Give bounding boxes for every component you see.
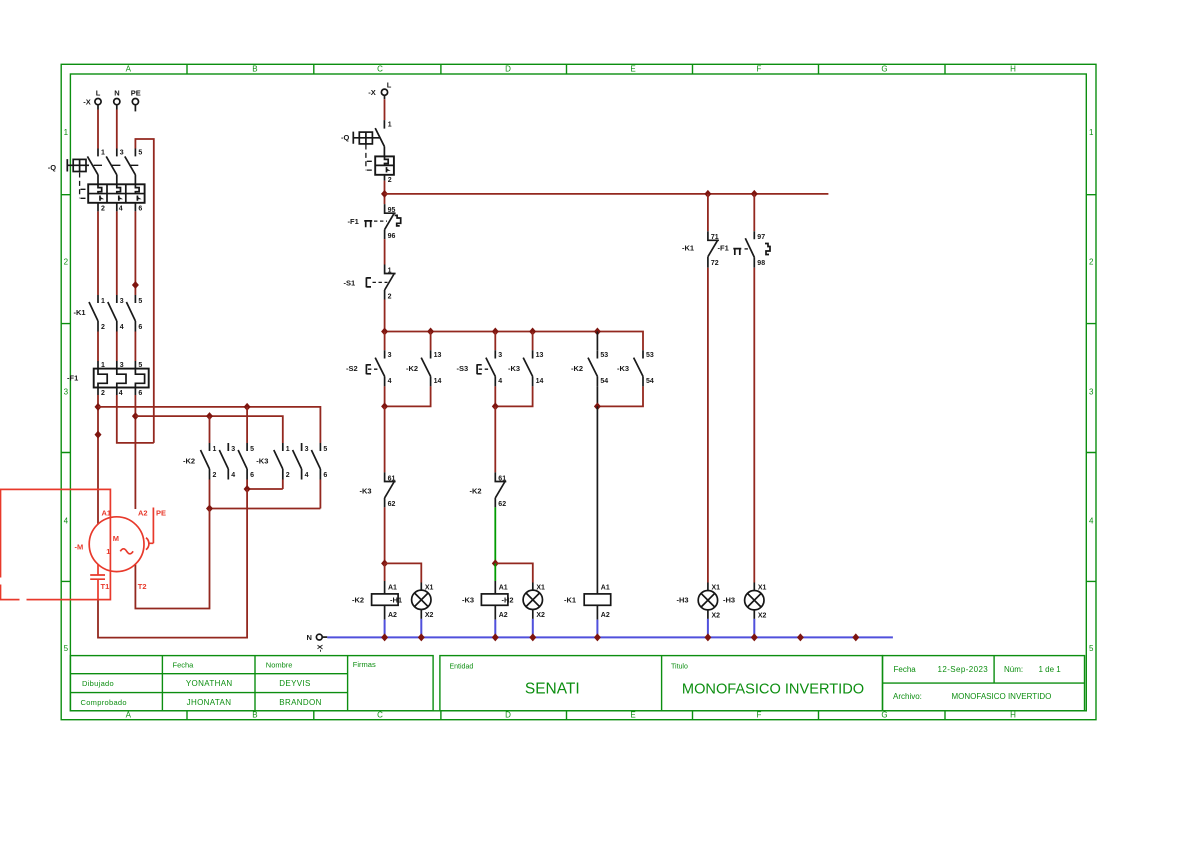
- node dot coil K2: [381, 559, 388, 567]
- svg-text:-S3: -S3: [457, 364, 469, 373]
- svg-text:97: 97: [757, 234, 765, 241]
- wire K3-62 to coil node: [384, 507, 386, 563]
- contact -K1 71-72: [682, 231, 719, 268]
- svg-text:PE: PE: [156, 508, 166, 517]
- svg-text:54: 54: [646, 378, 654, 385]
- svg-text:4: 4: [1089, 517, 1094, 526]
- svg-text:-K2: -K2: [571, 364, 583, 373]
- wire T2 run: [135, 509, 209, 609]
- breaker -Q pole 5: [125, 149, 143, 185]
- svg-text:53: 53: [646, 352, 654, 359]
- svg-text:98: 98: [757, 260, 765, 267]
- svg-text:2: 2: [1089, 258, 1094, 267]
- svg-text:PE: PE: [131, 88, 141, 97]
- svg-text:N: N: [307, 633, 312, 642]
- pushbutton -S3 3-4: [457, 350, 503, 386]
- svg-text:1 de 1: 1 de 1: [1039, 665, 1062, 674]
- motor terminal labels: [101, 508, 148, 591]
- svg-text:1: 1: [101, 150, 105, 157]
- svg-text:1: 1: [286, 446, 290, 453]
- svg-text:-K3: -K3: [462, 595, 474, 604]
- bus node dots: [381, 633, 388, 641]
- node dot below -Q: [381, 190, 388, 198]
- svg-text:5: 5: [1089, 644, 1094, 653]
- svg-text:-K2: -K2: [406, 364, 418, 373]
- svg-text:-K1: -K1: [682, 244, 694, 253]
- lamp -H3 a: [677, 585, 721, 638]
- motor -M: [75, 517, 145, 572]
- coil -K3: [462, 584, 508, 637]
- svg-text:1: 1: [101, 362, 105, 369]
- svg-text:G: G: [881, 711, 887, 720]
- svg-text:-H3: -H3: [723, 596, 735, 605]
- control rail top: [385, 193, 829, 195]
- node dot rail2 S3: [492, 328, 499, 336]
- svg-text:-K2: -K2: [183, 457, 195, 466]
- svg-text:D: D: [505, 711, 511, 720]
- svg-text:54: 54: [600, 378, 608, 385]
- wire join2 to K2 61: [494, 406, 496, 472]
- svg-text:2: 2: [101, 324, 105, 331]
- svg-text:MONOFASICO INVERTIDO: MONOFASICO INVERTIDO: [682, 681, 864, 697]
- svg-text:H: H: [1010, 65, 1016, 74]
- wires rail2 to branch contacts: [385, 332, 533, 351]
- svg-text:3: 3: [305, 446, 309, 453]
- svg-text:A2: A2: [499, 612, 508, 619]
- wire join1 to K3 61: [384, 406, 386, 472]
- control rail 2: [385, 332, 643, 351]
- contactor -K3 pole 1-2: [274, 443, 290, 480]
- svg-text:-Q: -Q: [341, 133, 349, 142]
- wire F1-98 to lamp H3b: [753, 268, 755, 583]
- svg-text:4: 4: [119, 390, 123, 397]
- svg-text:12-Sep-2023: 12-Sep-2023: [938, 665, 989, 674]
- svg-text:6: 6: [138, 205, 142, 212]
- svg-text:Fecha: Fecha: [173, 661, 195, 670]
- branch rail L to K2/K3 pole5: [98, 407, 320, 443]
- branch rail F1/6 to K2/K3 pole1: [135, 416, 282, 443]
- capacitor on T1: [90, 564, 105, 599]
- svg-text:-K2: -K2: [352, 595, 364, 604]
- wire -Q to rail: [384, 181, 386, 205]
- svg-text:6: 6: [323, 472, 327, 479]
- svg-text:-F1: -F1: [718, 244, 729, 253]
- contact -K3 61-62: [360, 472, 396, 508]
- svg-text:-S1: -S1: [344, 278, 356, 287]
- svg-text:4: 4: [64, 517, 69, 526]
- svg-text:C: C: [377, 65, 383, 74]
- svg-text:A2: A2: [388, 612, 397, 619]
- svg-text:A2: A2: [601, 612, 610, 619]
- svg-text:-X: -X: [83, 97, 91, 106]
- neutral bus N: [327, 636, 893, 638]
- node dot rail2 S2: [381, 328, 388, 336]
- svg-text:1: 1: [1089, 128, 1094, 137]
- svg-text:-X: -X: [368, 88, 376, 97]
- svg-text:L: L: [96, 88, 101, 97]
- contact -K2 61-62: [470, 472, 507, 508]
- svg-text:5: 5: [138, 362, 142, 369]
- wire join3 to coil K1 (black): [596, 406, 598, 594]
- wire K2-62 to coil node (green): [494, 507, 496, 563]
- wire to K2 pole1: [209, 416, 211, 443]
- svg-text:D: D: [505, 65, 511, 74]
- wire -F1/2 down to motor A1: [97, 395, 99, 524]
- svg-text:4: 4: [231, 472, 235, 479]
- wire K1-72 to lamp H3a: [707, 268, 709, 583]
- svg-text:3: 3: [120, 298, 124, 305]
- lamp -H3 b: [723, 585, 767, 638]
- svg-text:SENATI: SENATI: [525, 680, 580, 697]
- coil -K1: [564, 584, 611, 637]
- svg-text:72: 72: [711, 260, 719, 267]
- lamp -H2: [502, 584, 546, 637]
- svg-text:A1: A1: [388, 584, 397, 591]
- svg-text:A: A: [126, 65, 132, 74]
- wire branch to lamp H1: [385, 563, 422, 582]
- node dot rail K1-71: [704, 190, 711, 198]
- svg-text:M: M: [113, 534, 119, 543]
- contactor -K3 pole 5-6: [311, 443, 327, 480]
- svg-text:4: 4: [305, 472, 309, 479]
- node dot A1 lower: [95, 431, 102, 439]
- node dot rail2 K2-53: [594, 328, 601, 336]
- svg-text:T1: T1: [101, 582, 110, 591]
- join S3/K3-13: [495, 386, 532, 406]
- svg-text:-S2: -S2: [346, 364, 358, 373]
- svg-text:61: 61: [498, 475, 506, 482]
- svg-text:F: F: [757, 711, 762, 720]
- svg-text:T2: T2: [138, 582, 147, 591]
- svg-text:-K3: -K3: [360, 487, 372, 496]
- svg-text:62: 62: [498, 501, 506, 508]
- wire -F1/6 down to A2: [134, 395, 136, 509]
- contact -F1 97-98: [718, 231, 771, 268]
- svg-text:6: 6: [250, 472, 254, 479]
- svg-text:4: 4: [388, 378, 392, 385]
- svg-text:B: B: [252, 65, 257, 74]
- svg-text:A2: A2: [138, 508, 148, 517]
- wire terminal to -Q control: [384, 95, 386, 99]
- svg-text:3: 3: [120, 150, 124, 157]
- join K2-53/K3-53: [596, 386, 598, 406]
- svg-text:Entidad: Entidad: [450, 664, 474, 671]
- coil -K2: [352, 584, 398, 637]
- svg-text:Núm:: Núm:: [1004, 665, 1023, 674]
- svg-text:96: 96: [388, 233, 396, 240]
- motor enclosure box: [0, 489, 110, 601]
- svg-text:Archivo:: Archivo:: [893, 692, 922, 701]
- contactor -K1 pole 5-6: [126, 295, 142, 332]
- svg-text:2: 2: [101, 390, 105, 397]
- svg-text:2: 2: [388, 293, 392, 300]
- wire loop pole5 top to bypass line: [135, 139, 153, 443]
- svg-text:2: 2: [388, 177, 392, 184]
- svg-text:X2: X2: [712, 612, 721, 619]
- contactor -K2 pole 5-6: [238, 443, 254, 480]
- svg-text:-M: -M: [75, 542, 84, 551]
- svg-text:5: 5: [138, 150, 142, 157]
- svg-text:BRANDON: BRANDON: [279, 698, 321, 707]
- contact -K3 13-14: [508, 350, 543, 386]
- wire S1 to rail2: [384, 300, 386, 332]
- wire L terminal to -Q: [97, 105, 99, 110]
- svg-text:95: 95: [388, 207, 396, 214]
- svg-text:Firmas: Firmas: [353, 660, 376, 669]
- contactor -K2 pole 3-4: [219, 443, 235, 480]
- terminal -X N: [114, 88, 120, 104]
- breaker -Q control: [341, 120, 394, 184]
- svg-text:E: E: [630, 711, 635, 720]
- svg-text:-F1: -F1: [348, 217, 359, 226]
- node dot K2/2: [206, 505, 213, 513]
- svg-text:X2: X2: [425, 612, 434, 619]
- svg-text:Fecha: Fecha: [894, 665, 917, 674]
- svg-text:5: 5: [138, 298, 142, 305]
- svg-text:C: C: [377, 711, 383, 720]
- node dot join3: [594, 402, 601, 410]
- svg-text:-X: -X: [316, 645, 325, 653]
- svg-text:1: 1: [64, 128, 69, 137]
- svg-text:A1: A1: [499, 584, 508, 591]
- contact -K2 53-54: [571, 350, 608, 386]
- svg-text:JHONATAN: JHONATAN: [187, 698, 232, 707]
- terminal -X N (neutral): [307, 633, 328, 652]
- contactor -K1 pole 3-4: [108, 295, 124, 332]
- node dot rail F1-97: [751, 190, 758, 198]
- svg-text:Dibujado: Dibujado: [82, 679, 114, 688]
- svg-text:5: 5: [64, 644, 69, 653]
- svg-text:1: 1: [213, 446, 217, 453]
- svg-text:4: 4: [498, 378, 502, 385]
- svg-text:1: 1: [101, 298, 105, 305]
- svg-text:E: E: [630, 65, 635, 74]
- svg-text:-K2: -K2: [470, 487, 482, 496]
- svg-text:3: 3: [388, 352, 392, 359]
- node dot rail2 K2-13: [427, 328, 434, 336]
- wires -K1 to -F1: [98, 332, 135, 362]
- breaker -Q pole 1: [87, 149, 105, 185]
- svg-text:-Q: -Q: [48, 163, 56, 172]
- node dot pole5: [132, 281, 139, 289]
- svg-text:A1: A1: [102, 508, 112, 517]
- svg-text:-F1: -F1: [67, 374, 78, 383]
- svg-text:B: B: [252, 711, 257, 720]
- breaker -Q pole 3: [106, 149, 124, 185]
- svg-text:1: 1: [388, 121, 392, 128]
- svg-text:Comprobado: Comprobado: [81, 698, 127, 707]
- svg-text:A1: A1: [601, 584, 610, 591]
- wire F1 to S1: [384, 239, 386, 264]
- svg-text:6: 6: [138, 324, 142, 331]
- svg-text:G: G: [881, 65, 887, 74]
- svg-text:3: 3: [498, 352, 502, 359]
- wire rail to K1-71: [707, 194, 709, 231]
- svg-text:Nombre: Nombre: [266, 661, 293, 670]
- svg-text:14: 14: [434, 378, 442, 385]
- svg-text:71: 71: [711, 234, 719, 241]
- breaker -Q trip unit box: [88, 184, 144, 212]
- wire branch to lamp H2: [495, 563, 533, 582]
- svg-text:A: A: [126, 711, 132, 720]
- node dot rail2 K3-13: [529, 328, 536, 336]
- svg-text:-K3: -K3: [508, 364, 520, 373]
- svg-text:3: 3: [1089, 388, 1094, 397]
- wire T1 run: [98, 489, 247, 638]
- node dot coil K3: [492, 559, 499, 567]
- join S2/K2-13: [385, 386, 431, 406]
- svg-text:-K3: -K3: [256, 457, 268, 466]
- node dot A1 branch: [95, 403, 102, 411]
- svg-text:X1: X1: [536, 584, 545, 591]
- svg-text:61: 61: [388, 475, 396, 482]
- contactor -K3 pole 3-4: [293, 443, 309, 480]
- svg-text:N: N: [114, 88, 119, 97]
- svg-text:-K1: -K1: [564, 595, 576, 604]
- svg-text:X2: X2: [758, 612, 767, 619]
- wire K2/2 join K3/6: [210, 480, 321, 509]
- contactor -K1 pole 1-2: [89, 295, 105, 332]
- thermal relay -F1 power: [67, 362, 149, 397]
- pushbutton -S1: [344, 265, 396, 301]
- svg-text:5: 5: [323, 446, 327, 453]
- svg-text:3: 3: [231, 446, 235, 453]
- terminal -X L (control): [368, 81, 391, 97]
- svg-text:Titulo: Titulo: [671, 664, 688, 671]
- svg-text:5: 5: [250, 446, 254, 453]
- lamp -H1: [390, 584, 434, 637]
- svg-text:2: 2: [286, 472, 290, 479]
- svg-text:1: 1: [106, 547, 110, 556]
- svg-text:4: 4: [120, 324, 124, 331]
- svg-text:X1: X1: [758, 585, 767, 592]
- terminal -X L: [83, 88, 101, 106]
- TITLE BLOCK: [70, 656, 1084, 711]
- svg-text:4: 4: [119, 205, 123, 212]
- svg-text:DEYVIS: DEYVIS: [279, 679, 310, 688]
- svg-text:L: L: [387, 81, 392, 90]
- svg-text:62: 62: [388, 501, 396, 508]
- contact -F1 95-96: [348, 204, 401, 240]
- svg-text:3: 3: [120, 362, 124, 369]
- node dot join1: [381, 402, 388, 410]
- contact -K3 53-54: [617, 350, 654, 386]
- wire K2/6 join K3/2: [247, 480, 283, 490]
- svg-text:X1: X1: [712, 585, 721, 592]
- node dot K2 pole5: [244, 403, 251, 411]
- svg-text:-H1: -H1: [390, 595, 402, 604]
- wire -F1/4 down and right to bypass: [117, 395, 154, 443]
- contactor -K2 pole 1-2: [201, 443, 217, 480]
- svg-text:1: 1: [388, 267, 392, 274]
- pushbutton -S2 3-4: [346, 350, 392, 386]
- wire to coil K3 (green): [494, 563, 496, 581]
- motor PE lead: [146, 508, 166, 550]
- svg-text:-H3: -H3: [677, 596, 689, 605]
- wires -Q to -K1: [98, 211, 135, 295]
- svg-text:YONATHAN: YONATHAN: [186, 679, 233, 688]
- svg-text:H: H: [1010, 711, 1016, 720]
- svg-text:13: 13: [434, 352, 442, 359]
- node dot join2: [492, 402, 499, 410]
- svg-text:2: 2: [101, 205, 105, 212]
- terminal -X PE: [131, 88, 141, 111]
- wire N terminal to -Q: [116, 105, 118, 110]
- wire to K2 pole5: [246, 407, 248, 443]
- breaker -Q (3-pole motor breaker): [48, 159, 139, 198]
- node dot K2/6: [244, 485, 251, 493]
- svg-text:2: 2: [213, 472, 217, 479]
- svg-text:53: 53: [600, 352, 608, 359]
- contact -K2 13-14: [406, 350, 441, 386]
- svg-text:13: 13: [536, 352, 544, 359]
- svg-text:X2: X2: [536, 612, 545, 619]
- node dot F1/6 branch: [132, 412, 139, 420]
- svg-text:-K1: -K1: [74, 308, 86, 317]
- svg-text:2: 2: [64, 258, 69, 267]
- wire rail to F1-97: [753, 194, 755, 231]
- wire to coil K2: [384, 563, 386, 581]
- svg-text:-K3: -K3: [617, 364, 629, 373]
- svg-text:F: F: [757, 65, 762, 74]
- svg-text:MONOFASICO INVERTIDO: MONOFASICO INVERTIDO: [952, 692, 1052, 701]
- svg-text:6: 6: [138, 390, 142, 397]
- node dot K2 pole1: [206, 412, 213, 420]
- svg-text:X1: X1: [425, 584, 434, 591]
- svg-text:3: 3: [64, 388, 69, 397]
- svg-text:14: 14: [536, 378, 544, 385]
